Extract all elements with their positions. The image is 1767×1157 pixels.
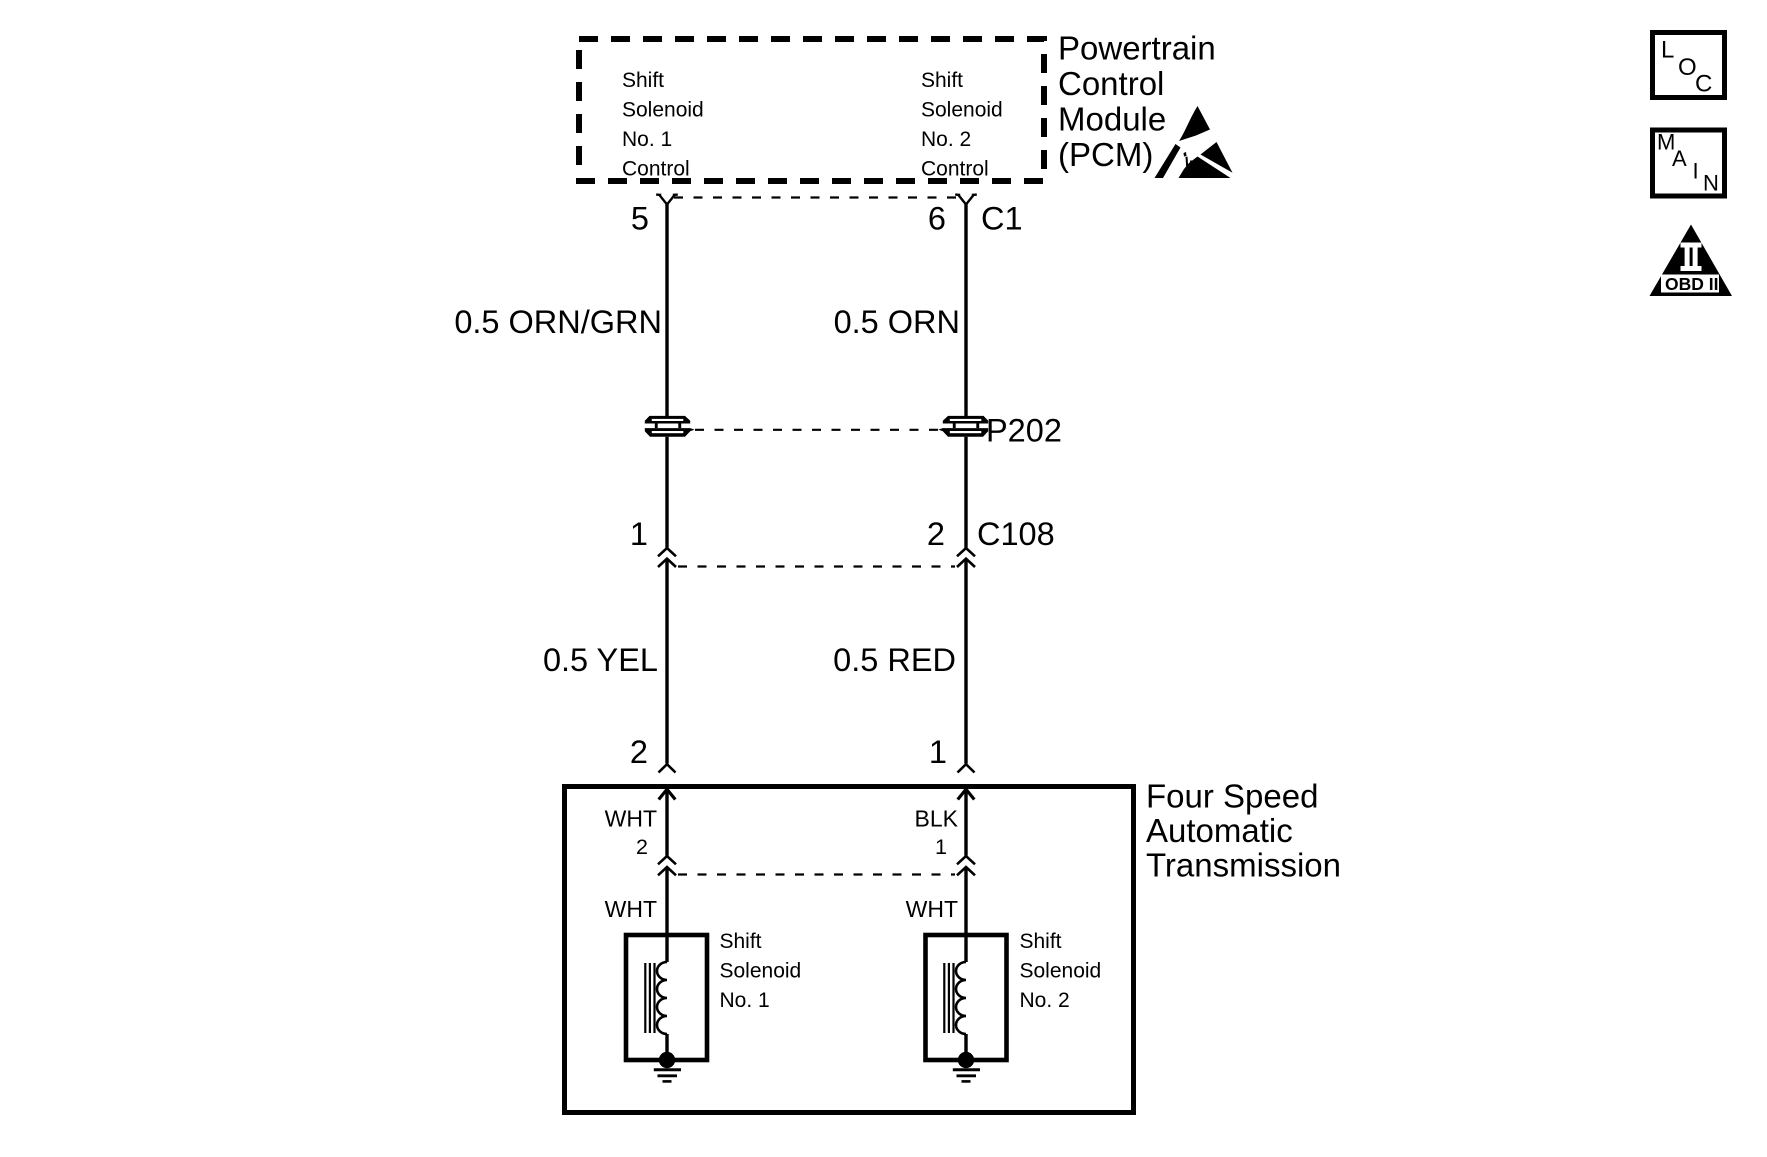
PCM pin function label: Shift Solenoid No. 1 Control: [622, 69, 704, 181]
svg-text:A: A: [1672, 146, 1687, 171]
connector P202 tie line (dashed): [695, 429, 938, 431]
ground symbol: [953, 1070, 980, 1082]
svg-text:0.5 ORN/GRN: 0.5 ORN/GRN: [454, 304, 662, 340]
svg-text:WHT: WHT: [906, 896, 958, 922]
connector C108 right terminal (double chevron): [957, 548, 975, 567]
svg-text:Solenoid: Solenoid: [720, 960, 802, 983]
wire: PCM pin 5 to P202: [665, 204, 668, 416]
svg-text:P202: P202: [986, 413, 1062, 449]
svg-text:1: 1: [929, 734, 947, 770]
svg-text:6: 6: [928, 201, 946, 237]
wire to shift solenoid No. 2: [964, 868, 967, 963]
svg-text:Shift: Shift: [622, 69, 664, 92]
PCM module dashed box: [579, 39, 1044, 181]
wire: C108 to transmission (left): [665, 559, 668, 764]
svg-text:No. 2: No. 2: [921, 128, 971, 151]
wire: PCM pin 6 to P202: [964, 204, 967, 416]
PCM title: Powertrain Control Module (PCM): [1058, 30, 1216, 174]
svg-text:2: 2: [630, 734, 648, 770]
label Shift Solenoid No. 1: [720, 930, 802, 1012]
label Shift Solenoid No. 2: [1020, 930, 1102, 1012]
svg-text:1: 1: [630, 516, 648, 552]
LOC symbol box: [1653, 33, 1725, 98]
wire: P202 to C108 (left): [665, 437, 668, 548]
solenoid coil: [956, 962, 966, 1034]
solenoid coil: [657, 962, 667, 1034]
svg-text:WHT: WHT: [605, 896, 657, 922]
shift solenoid No. 1: [626, 930, 801, 1081]
svg-text:Shift: Shift: [1020, 930, 1062, 953]
svg-text:2: 2: [927, 516, 945, 552]
svg-text:(PCM): (PCM): [1058, 136, 1153, 173]
connector C1: pin 6 terminal: [955, 195, 977, 205]
svg-text:Four Speed: Four Speed: [1146, 778, 1318, 815]
svg-text:0.5 ORN: 0.5 ORN: [834, 304, 960, 340]
svg-text:2: 2: [636, 835, 648, 859]
connector C108 left terminal (double chevron): [658, 548, 676, 567]
svg-text:Solenoid: Solenoid: [1020, 960, 1102, 983]
svg-text:1: 1: [935, 835, 947, 859]
inner connector right terminal (double chevron): [957, 856, 975, 875]
svg-text:Module: Module: [1058, 101, 1166, 138]
wire to shift solenoid No. 1: [665, 868, 668, 963]
svg-text:No. 2: No. 2: [1020, 989, 1070, 1012]
svg-text:WHT: WHT: [605, 806, 657, 832]
svg-text:Control: Control: [1058, 65, 1164, 102]
transmission case connector left terminal (chevron): [659, 764, 676, 772]
transmission title: Four Speed Automatic Transmission: [1146, 778, 1341, 884]
OBD II symbol: [1650, 225, 1733, 297]
ground junction dot: [659, 1052, 675, 1068]
svg-text:0.5 YEL: 0.5 YEL: [543, 642, 658, 678]
transmission box: [565, 787, 1134, 1113]
inner connector tie line (dashed): [678, 873, 955, 875]
connector C108 tie line (dashed): [678, 565, 955, 567]
svg-text:Transmission: Transmission: [1146, 847, 1341, 884]
wire from coil to case ground: [665, 1034, 668, 1054]
ground symbol: [654, 1070, 681, 1082]
svg-text:Solenoid: Solenoid: [622, 99, 704, 122]
transmission case connector right terminal (chevron): [958, 764, 975, 772]
wire entering transmission (right) with arrowhead: [958, 789, 975, 855]
connector C1 tie line (dashed): [674, 196, 958, 198]
svg-text:Powertrain: Powertrain: [1058, 30, 1216, 67]
ground junction dot: [958, 1052, 974, 1068]
connector P202 left half symbol: [645, 416, 695, 437]
wire from coil to case ground: [964, 1034, 967, 1054]
shift solenoid No. 2: [926, 930, 1102, 1081]
svg-text:Shift: Shift: [921, 69, 963, 92]
svg-text:0.5 RED: 0.5 RED: [833, 642, 956, 678]
solenoid core bars: [943, 963, 945, 1033]
svg-text:O: O: [1678, 54, 1697, 81]
svg-text:Control: Control: [622, 158, 690, 181]
connector P202 right half symbol: [938, 416, 988, 437]
svg-text:Shift: Shift: [720, 930, 762, 953]
svg-text:C108: C108: [977, 516, 1055, 552]
svg-text:OBD II: OBD II: [1665, 274, 1718, 294]
solenoid core bars: [644, 963, 646, 1033]
wire entering transmission (left) with arrowhead: [659, 789, 676, 855]
svg-text:BLK: BLK: [915, 806, 959, 832]
svg-text:C1: C1: [981, 201, 1023, 237]
svg-text:N: N: [1703, 171, 1719, 196]
PCM pin function label: Shift Solenoid No. 2 Control: [921, 69, 1003, 181]
ESD sensitivity symbol: [1155, 106, 1233, 178]
svg-text:Control: Control: [921, 158, 989, 181]
svg-text:Solenoid: Solenoid: [921, 99, 1003, 122]
svg-text:L: L: [1661, 37, 1674, 64]
svg-text:No. 1: No. 1: [720, 989, 770, 1012]
svg-text:5: 5: [631, 201, 649, 237]
inner connector left terminal (double chevron): [658, 856, 676, 875]
wire: P202 to C108 (right): [964, 437, 967, 548]
connector C1: pin 5 terminal: [656, 195, 678, 205]
svg-text:No. 1: No. 1: [622, 128, 672, 151]
MAIN symbol box: [1653, 130, 1725, 197]
wire: C108 to transmission (right): [964, 559, 967, 764]
svg-text:Automatic: Automatic: [1146, 812, 1293, 849]
svg-text:C: C: [1695, 71, 1712, 98]
svg-text:I: I: [1693, 159, 1699, 184]
